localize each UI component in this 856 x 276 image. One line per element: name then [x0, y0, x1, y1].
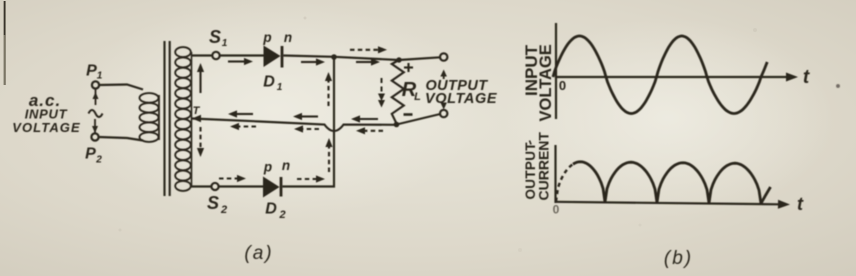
svg-text:1: 1 — [97, 71, 103, 82]
svg-text:2: 2 — [95, 155, 102, 166]
svg-text:(a): (a) — [244, 243, 273, 264]
svg-text:CURRENT: CURRENT — [536, 132, 552, 201]
svg-text:D: D — [265, 201, 277, 218]
svg-text:t: t — [797, 194, 804, 214]
svg-text:L: L — [414, 91, 421, 103]
svg-text:p: p — [262, 30, 271, 45]
svg-text:n: n — [282, 158, 290, 173]
svg-text:0: 0 — [553, 203, 560, 217]
svg-text:S: S — [207, 193, 219, 213]
svg-text:VOLTAGE: VOLTAGE — [425, 91, 498, 107]
svg-text:t: t — [803, 67, 810, 88]
svg-text:VOLTAGE: VOLTAGE — [537, 44, 555, 121]
svg-text:P: P — [85, 146, 96, 163]
svg-text:VOLTAGE: VOLTAGE — [12, 120, 81, 135]
svg-text:n: n — [284, 30, 292, 45]
svg-text:2: 2 — [278, 209, 285, 221]
svg-text:p: p — [263, 160, 272, 175]
svg-text:1: 1 — [222, 38, 228, 49]
svg-text:(b): (b) — [664, 248, 693, 269]
svg-text:P: P — [86, 63, 97, 80]
svg-text:D: D — [263, 74, 275, 91]
svg-text:1: 1 — [277, 82, 283, 93]
svg-text:0: 0 — [559, 78, 566, 93]
svg-text:S: S — [209, 27, 221, 47]
svg-text:2: 2 — [220, 204, 227, 216]
